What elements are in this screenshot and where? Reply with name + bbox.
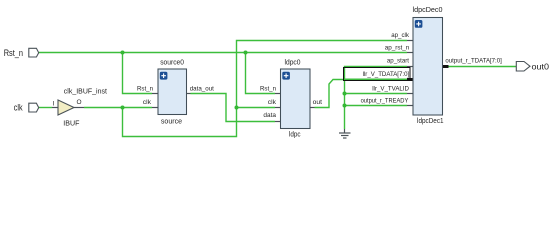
wire: Rst_n branch to source0: [123, 53, 153, 94]
svg-text:out: out: [313, 99, 323, 106]
svg-text:output_r_TDATA[7:0]: output_r_TDATA[7:0]: [445, 58, 501, 65]
node: junction Rst_n/source0 branch: [121, 51, 125, 55]
svg-text:ldpcDec0: ldpcDec0: [413, 7, 443, 14]
module ldpcDec0 pin stub llr_V_TDATA bus: [407, 78, 419, 81]
buffer clk_IBUF_inst output stub: [74, 107, 84, 109]
svg-text:Rst_n: Rst_n: [260, 85, 276, 92]
module ldpc0 pin stub Rst_n: [275, 93, 285, 95]
wire: output_r_TDATA bus to out0: [448, 66, 517, 68]
wire: ap_start / TVALID / TREADY net to ground: [345, 67, 408, 130]
svg-text:clk: clk: [14, 102, 23, 112]
svg-text:ldpcDec1: ldpcDec1: [417, 118, 444, 125]
module source0 pin stub Rst_n: [152, 93, 162, 95]
svg-text:IBUF: IBUF: [63, 120, 79, 127]
wire: Rst_n branch to ldpc0: [246, 53, 276, 94]
net highlight box llr_V_TDATA: [344, 68, 411, 81]
wire: clk spur into ldpc0 clk: [237, 107, 276, 109]
svg-text:ap_clk: ap_clk: [391, 32, 409, 39]
svg-text:out0: out0: [532, 61, 550, 71]
module source0 body: [158, 69, 187, 115]
node: junction clk/source0: [121, 106, 125, 110]
module ldpcDec0 pin stub ap_clk: [407, 40, 417, 42]
module ldpc0 body: [281, 69, 311, 129]
svg-text:Rst_n: Rst_n: [4, 48, 23, 58]
svg-text:llr_V_TVALID: llr_V_TVALID: [372, 85, 409, 92]
module ldpcDec0 pin stub output_r_TDATA bus: [437, 65, 449, 68]
svg-text:I: I: [53, 101, 55, 108]
module ldpc0 pin stub out: [306, 107, 315, 109]
svg-text:ldpc: ldpc: [289, 131, 301, 138]
buffer clk_IBUF_inst input stub: [52, 107, 58, 109]
ground: [339, 129, 351, 138]
wire: clk_IBUF to source0 clk: [84, 107, 152, 109]
svg-text:output_r_TREADY: output_r_TREADY: [361, 97, 409, 104]
module ldpcDec0 pin stub output_r_TREADY: [407, 105, 417, 107]
svg-text:source0: source0: [160, 59, 184, 66]
module source0 pin stub clk: [152, 107, 162, 109]
svg-text:ap_start: ap_start: [387, 58, 409, 65]
svg-text:data_out: data_out: [190, 86, 214, 93]
svg-text:source: source: [161, 119, 182, 126]
wire: clk_IBUF bottom route up to ap_clk: [123, 41, 408, 137]
node: junction clk/ldpc0: [235, 106, 239, 110]
node: junction Rst_n/ldpc0 branch: [244, 51, 248, 55]
svg-text:O: O: [77, 99, 82, 106]
module ldpcDec0 body: [413, 18, 443, 116]
svg-text:Rst_n: Rst_n: [137, 85, 153, 92]
wire: Rst_n trunk: [39, 52, 407, 54]
module ldpc0 pin stub data: [275, 121, 285, 123]
wire: clk port to IBUF: [39, 107, 53, 109]
module ldpc0 pin stub clk: [275, 107, 285, 109]
module ldpcDec0 pin stub ap_start: [407, 66, 417, 68]
node: junction TVALID: [343, 92, 347, 96]
svg-text:clk_IBUF_inst: clk_IBUF_inst: [64, 88, 107, 95]
module ldpcDec0 pin stub llr_V_TVALID: [407, 93, 417, 95]
buffer clk_IBUF_inst: [53, 88, 107, 127]
svg-text:ap_rst_n: ap_rst_n: [385, 44, 410, 51]
svg-text:clk: clk: [268, 99, 277, 106]
svg-text:ldpc0: ldpc0: [285, 59, 301, 66]
module ldpcDec0 pin stub ap_rst_n: [407, 52, 417, 54]
wire: ldpc0 out up to llr_V_TDATA: [315, 80, 408, 108]
module source0 pin stub data_out: [181, 93, 191, 95]
port clk: [14, 102, 39, 112]
svg-text:data: data: [263, 112, 276, 119]
wire: llr_V_TDATA bus thick segment: [344, 79, 407, 81]
port Rst_n: [4, 48, 39, 58]
svg-text:llr_V_TDATA[7:0]: llr_V_TDATA[7:0]: [363, 71, 410, 78]
port out0: [516, 61, 549, 71]
wire: data_out to ldpc0 data: [191, 94, 276, 122]
node: junction TREADY: [343, 104, 347, 108]
svg-text:clk: clk: [143, 99, 152, 106]
